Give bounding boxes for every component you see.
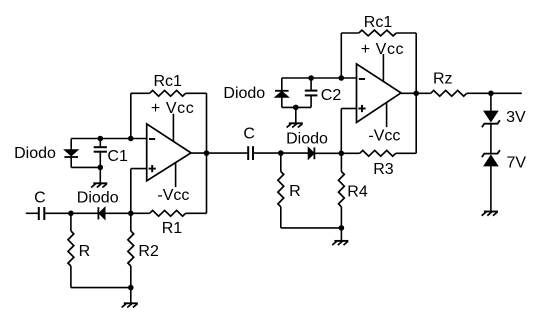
resistor Rz bbox=[431, 90, 467, 96]
svg-text:3V: 3V bbox=[506, 109, 526, 126]
diode Diodo stage1 vertical bbox=[64, 139, 78, 168]
wire R3 right vertical bbox=[415, 93, 417, 153]
wire Rc1 right vertical stage2 bbox=[415, 33, 417, 93]
node ground junction stage2 bbox=[339, 225, 345, 231]
svg-text:Diodo: Diodo bbox=[223, 85, 265, 102]
wire zener to ground bbox=[490, 166, 492, 212]
svg-text:R: R bbox=[289, 183, 301, 200]
svg-text:Diodo: Diodo bbox=[286, 130, 328, 147]
svg-text:Rz: Rz bbox=[433, 70, 453, 87]
wire diode to R3 bbox=[314, 152, 359, 154]
resistor R2 bbox=[128, 213, 134, 287]
node ground junction stage1 bbox=[128, 285, 134, 291]
capacitor C2 bbox=[305, 78, 318, 107]
ground stage2 bottom bbox=[332, 241, 348, 245]
wire loop bottom stage2 bbox=[282, 106, 311, 108]
svg-text:C1: C1 bbox=[107, 148, 128, 165]
svg-text:Diodo: Diodo bbox=[77, 190, 119, 207]
node output stage1 bbox=[204, 150, 210, 156]
wire C coupling to stage2 bbox=[253, 152, 281, 154]
wire -Vcc stem stage2 bbox=[386, 103, 388, 127]
label -Vcc stage2 bbox=[368, 128, 400, 145]
label C coupling bbox=[243, 126, 255, 143]
diode Diodo stage2 vertical bbox=[275, 78, 289, 107]
label C2 bbox=[321, 87, 342, 104]
node inverting net junction B bbox=[128, 211, 134, 217]
capacitor C1 bbox=[94, 139, 107, 168]
wire minus input horizontal stage2 bbox=[282, 77, 357, 79]
label Rc1 stage1 bbox=[154, 73, 183, 90]
node minus input junction stage2 bbox=[339, 75, 345, 81]
wire bottom stage2 bbox=[281, 227, 342, 229]
wire between zeners bbox=[490, 124, 492, 154]
wire -Vcc stem stage1 bbox=[175, 163, 177, 187]
wire plus input horizontal bbox=[131, 168, 147, 170]
zener diode 3V bbox=[482, 111, 500, 127]
label +Vcc stage1 bbox=[151, 100, 194, 117]
svg-text:R: R bbox=[79, 243, 91, 260]
svg-text:Diodo: Diodo bbox=[14, 145, 56, 162]
wire plus input vertical stage2 bbox=[340, 109, 342, 154]
label Diodo stage2 vertical bbox=[223, 85, 265, 102]
wire output stage1 bbox=[191, 152, 248, 154]
wire plus input horizontal stage2 bbox=[341, 108, 356, 110]
ground C1 bbox=[91, 183, 107, 187]
label Diodo stage2 horizontal bbox=[286, 130, 328, 147]
wire output stage2 bbox=[401, 92, 431, 94]
svg-text:Rc1: Rc1 bbox=[154, 73, 183, 90]
svg-text:R4: R4 bbox=[347, 183, 368, 200]
resistor Rc1 stage1 bbox=[131, 90, 207, 96]
wire R1 right vertical bbox=[206, 153, 208, 213]
wire input stub bbox=[26, 212, 39, 214]
wire diode to R1 node bbox=[105, 212, 150, 214]
label R stage2 bbox=[289, 183, 301, 200]
svg-text:Rc1: Rc1 bbox=[364, 14, 393, 31]
op-amp U1 bbox=[147, 124, 191, 181]
label C input bbox=[34, 190, 46, 207]
label C1 bbox=[107, 148, 128, 165]
ground output bbox=[482, 212, 498, 216]
wire minus input horizontal bbox=[71, 138, 147, 140]
node C1 bottom bbox=[98, 165, 104, 171]
label Diodo stage1 horizontal bbox=[77, 190, 119, 207]
diode Diodo stage1 horizontal bbox=[98, 207, 105, 219]
wire ground stem stage2 bbox=[340, 228, 342, 241]
label R stage1 bbox=[79, 243, 91, 260]
op-amp U2 minus marker bbox=[359, 78, 365, 80]
svg-text:-Vcc: -Vcc bbox=[157, 187, 189, 204]
wire to zener 3V bbox=[490, 93, 492, 111]
node zener junction bbox=[488, 91, 494, 97]
svg-text:R3: R3 bbox=[373, 161, 394, 178]
diode Diodo stage2 horizontal bbox=[308, 147, 314, 159]
wire Rc1 left vertical stage2 bbox=[340, 33, 342, 78]
svg-text:+ Vcc: + Vcc bbox=[151, 100, 194, 117]
node stage2 input junction bbox=[278, 150, 284, 156]
op-amp U1 plus marker bbox=[149, 165, 156, 172]
label R4 bbox=[347, 183, 368, 200]
wire ground stem C1 bbox=[99, 167, 101, 183]
op-amp U2 bbox=[357, 64, 402, 123]
wire ground stem stage1 bbox=[130, 288, 132, 304]
capacitor C coupling bbox=[248, 146, 253, 160]
node output junction stage2 bbox=[413, 91, 419, 97]
svg-text:C: C bbox=[34, 190, 46, 207]
svg-text:-Vcc: -Vcc bbox=[368, 128, 400, 145]
op-amp U1 minus marker bbox=[149, 138, 155, 140]
resistor R1 bbox=[150, 210, 207, 216]
resistor R vertical stage1 bbox=[68, 213, 74, 287]
label R2 bbox=[138, 243, 159, 260]
wire Rc1 left vertical bbox=[130, 93, 132, 138]
node diode R3 R4 junction bbox=[339, 151, 345, 157]
wire plus input vertical bbox=[130, 169, 132, 214]
label Diodo stage1 vertical bbox=[14, 145, 56, 162]
label Rc1 stage2 bbox=[364, 14, 393, 31]
wire C to diode bbox=[44, 212, 99, 214]
wire Rz to output bbox=[467, 92, 522, 94]
node loop ground junction stage2 bbox=[293, 105, 299, 111]
wire +Vcc stem stage2 bbox=[382, 54, 384, 81]
ground stage1 bottom bbox=[122, 303, 138, 307]
label 3V bbox=[506, 109, 526, 126]
svg-text:7V: 7V bbox=[507, 155, 527, 172]
svg-text:R1: R1 bbox=[162, 220, 183, 237]
node minus input junction bbox=[128, 136, 134, 142]
zener diode 7V bbox=[482, 150, 500, 166]
label R3 bbox=[373, 161, 394, 178]
wire bottom stage1 bbox=[71, 287, 131, 289]
label -Vcc stage1 bbox=[157, 187, 189, 204]
ground loop stage2 bbox=[287, 123, 303, 127]
label R1 bbox=[162, 220, 183, 237]
resistor R3 bbox=[360, 150, 417, 156]
label Rz bbox=[433, 70, 453, 87]
resistor Rc1 stage2 bbox=[341, 30, 416, 36]
wire ground stem loop stage2 bbox=[295, 107, 297, 123]
wire loop bottom stage1 bbox=[71, 166, 100, 168]
label 7V bbox=[507, 155, 527, 172]
op-amp U2 plus marker bbox=[358, 105, 365, 112]
wire Rc1 right vertical bbox=[206, 93, 208, 153]
svg-text:+ Vcc: + Vcc bbox=[361, 41, 404, 58]
svg-text:C2: C2 bbox=[321, 87, 342, 104]
node C2 top bbox=[308, 75, 314, 81]
wire to diode stage2 bbox=[281, 152, 308, 154]
node C1 top bbox=[98, 136, 104, 142]
label +Vcc stage2 bbox=[361, 41, 404, 58]
capacitor C input bbox=[39, 207, 45, 220]
node input junction bbox=[68, 211, 74, 217]
wire +Vcc stem stage1 bbox=[172, 114, 174, 141]
svg-text:C: C bbox=[243, 126, 255, 143]
resistor R stage2 bbox=[278, 153, 284, 228]
resistor R4 bbox=[339, 153, 345, 228]
svg-text:R2: R2 bbox=[138, 243, 159, 260]
